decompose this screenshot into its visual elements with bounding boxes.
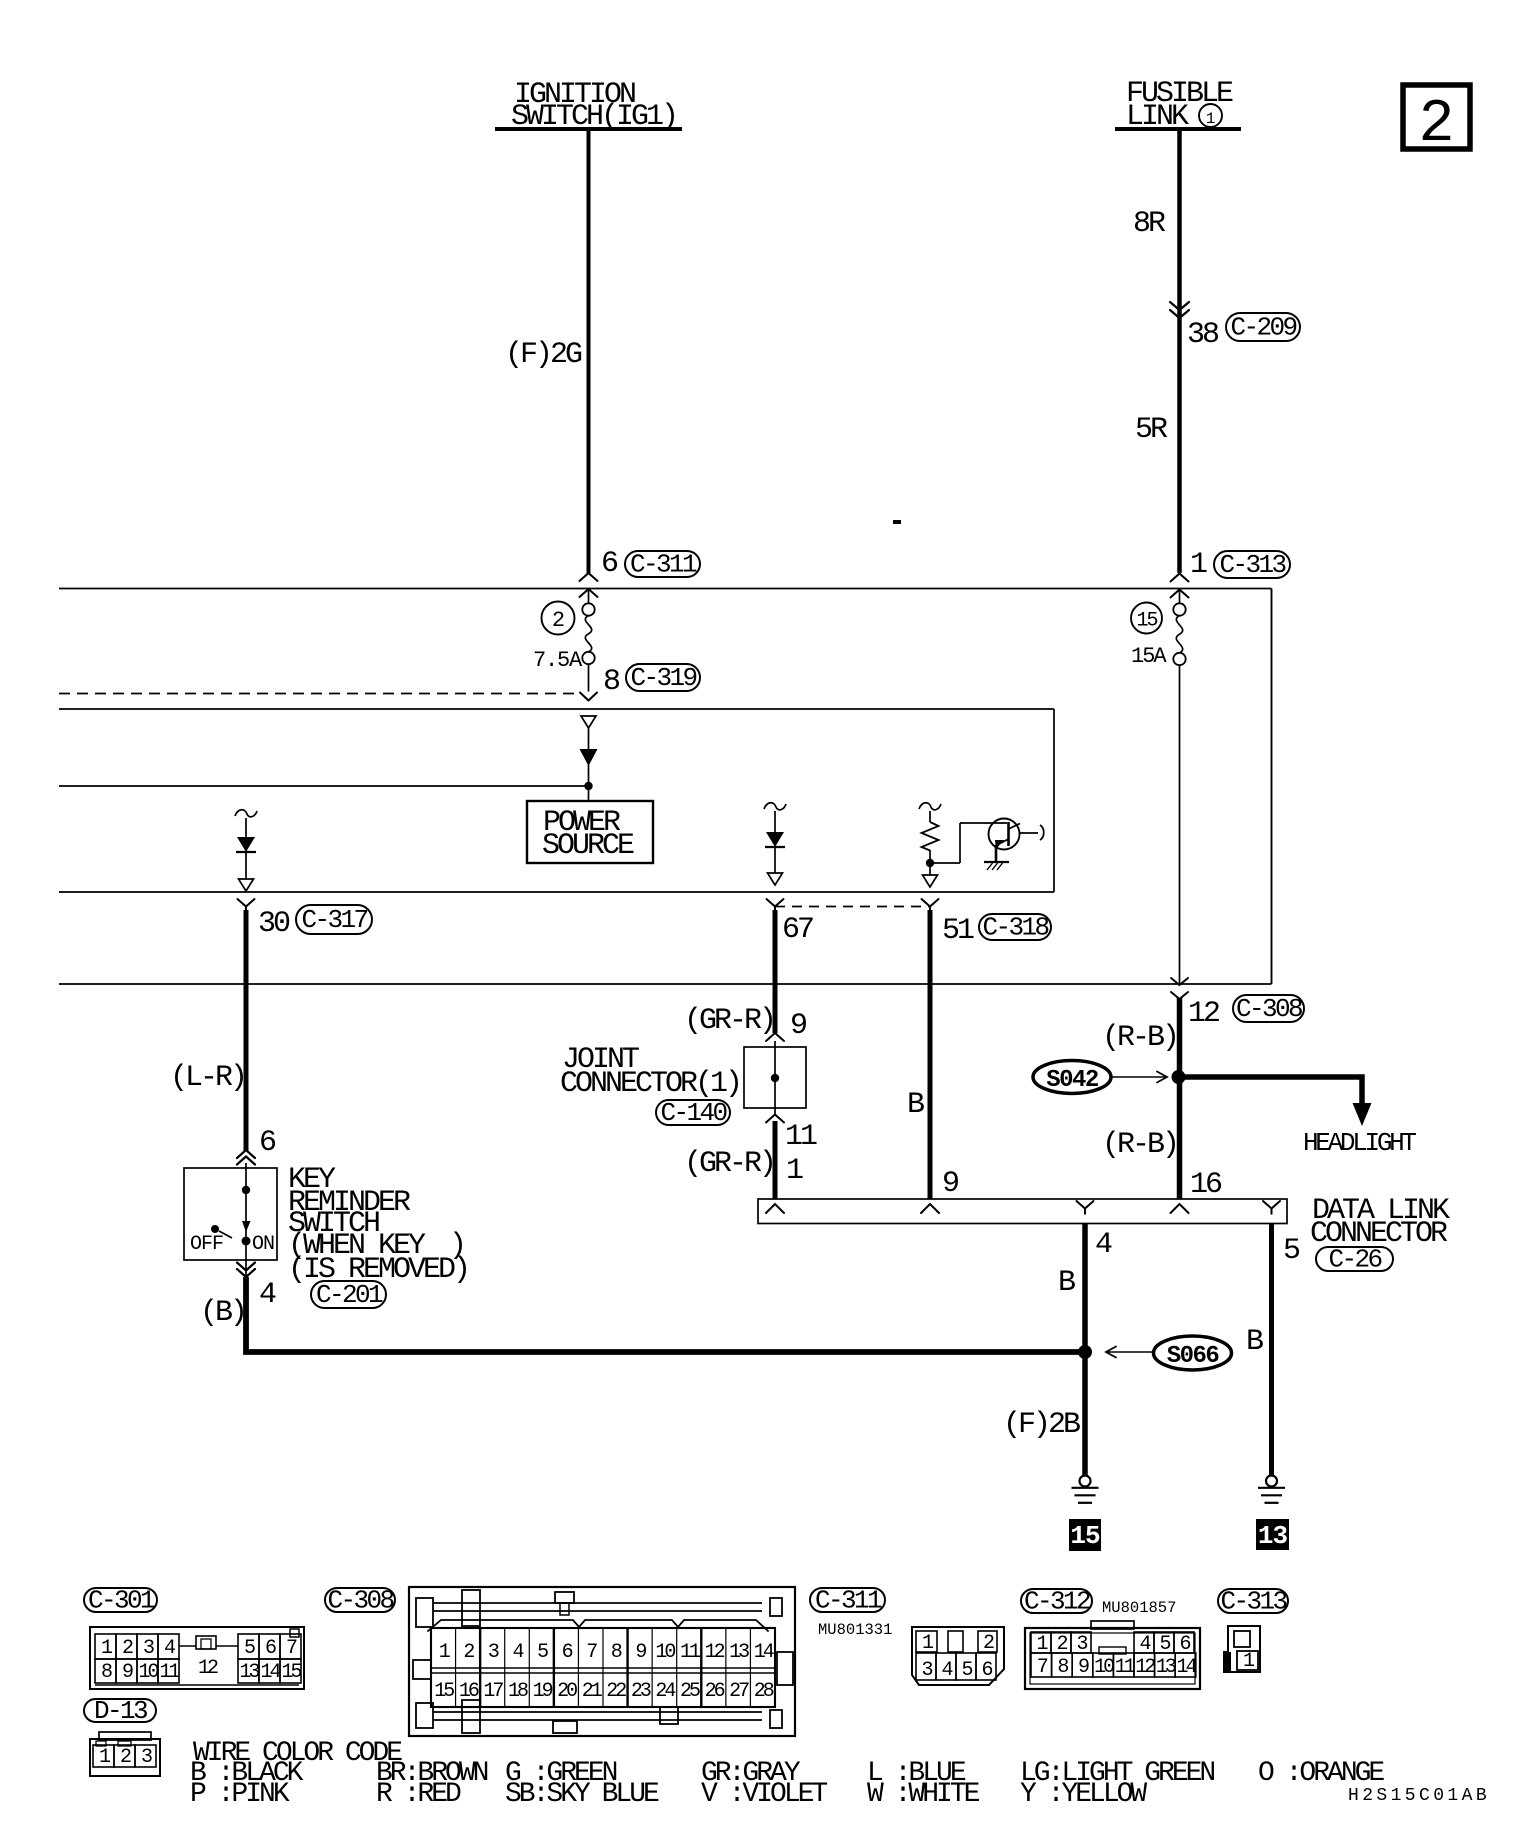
svg-text:SOURCE: SOURCE bbox=[542, 829, 634, 863]
svg-text:C-318: C-318 bbox=[982, 913, 1048, 943]
svg-text:(GR-R): (GR-R) bbox=[684, 1147, 774, 1181]
svg-text:S042: S042 bbox=[1046, 1067, 1098, 1094]
svg-text:2: 2 bbox=[552, 608, 564, 633]
svg-text:(F)2B: (F)2B bbox=[1003, 1408, 1080, 1442]
svg-text:25: 25 bbox=[680, 1680, 700, 1703]
svg-text:D-13: D-13 bbox=[94, 1696, 147, 1726]
svg-text:15: 15 bbox=[434, 1680, 454, 1703]
svg-text:19: 19 bbox=[533, 1680, 553, 1703]
svg-text:8: 8 bbox=[603, 665, 620, 699]
svg-text:HEADLIGHT: HEADLIGHT bbox=[1303, 1128, 1416, 1158]
svg-text:13: 13 bbox=[1156, 1656, 1176, 1679]
svg-text:OFF: OFF bbox=[190, 1233, 223, 1256]
svg-text:10: 10 bbox=[655, 1641, 675, 1664]
svg-text:15: 15 bbox=[1070, 1521, 1100, 1551]
svg-text:SB:SKY BLUE: SB:SKY BLUE bbox=[505, 1779, 659, 1810]
svg-text:C-311: C-311 bbox=[815, 1586, 882, 1616]
svg-text:17: 17 bbox=[483, 1680, 503, 1703]
svg-text:6: 6 bbox=[601, 547, 618, 581]
svg-text:B: B bbox=[907, 1088, 924, 1122]
svg-text:Y :YELLOW: Y :YELLOW bbox=[1020, 1779, 1147, 1810]
svg-text:C-319: C-319 bbox=[630, 663, 696, 693]
svg-text:C-317: C-317 bbox=[301, 905, 367, 935]
svg-text:C-312: C-312 bbox=[1024, 1587, 1090, 1617]
svg-text:22: 22 bbox=[606, 1680, 626, 1703]
svg-text:W :WHITE: W :WHITE bbox=[867, 1779, 980, 1810]
svg-text:14: 14 bbox=[754, 1641, 774, 1664]
svg-text:15: 15 bbox=[1136, 610, 1157, 633]
svg-text:67: 67 bbox=[782, 913, 813, 947]
svg-text:27: 27 bbox=[729, 1680, 749, 1703]
svg-text:P :PINK: P :PINK bbox=[190, 1779, 290, 1810]
svg-text:(GR-R): (GR-R) bbox=[684, 1004, 774, 1038]
svg-text:5R: 5R bbox=[1135, 413, 1168, 447]
svg-text:1: 1 bbox=[786, 1154, 803, 1188]
svg-text:11: 11 bbox=[1115, 1656, 1136, 1679]
svg-text:24: 24 bbox=[655, 1680, 675, 1703]
svg-text:11: 11 bbox=[159, 1661, 180, 1684]
svg-text:13: 13 bbox=[729, 1641, 749, 1664]
svg-text:10: 10 bbox=[138, 1661, 158, 1684]
svg-text:1: 1 bbox=[1206, 110, 1216, 128]
svg-text:21: 21 bbox=[582, 1680, 603, 1703]
svg-text:4: 4 bbox=[259, 1278, 276, 1312]
svg-text:C-311: C-311 bbox=[630, 550, 697, 580]
svg-text:C-308: C-308 bbox=[327, 1586, 393, 1616]
svg-text:23: 23 bbox=[631, 1680, 651, 1703]
svg-text:O :ORANGE: O :ORANGE bbox=[1258, 1758, 1384, 1789]
svg-text:C-140: C-140 bbox=[660, 1098, 726, 1128]
svg-text:13: 13 bbox=[239, 1661, 259, 1684]
svg-text:(F)2G: (F)2G bbox=[505, 338, 582, 372]
svg-text:28: 28 bbox=[754, 1680, 774, 1703]
svg-text:15: 15 bbox=[281, 1661, 301, 1684]
svg-text:C-313: C-313 bbox=[1220, 1587, 1286, 1617]
svg-text:51: 51 bbox=[942, 914, 974, 948]
svg-text:(R-B): (R-B) bbox=[1102, 1021, 1177, 1055]
svg-text:11: 11 bbox=[680, 1641, 701, 1664]
svg-text:12: 12 bbox=[1135, 1656, 1155, 1679]
svg-text:4: 4 bbox=[1095, 1228, 1112, 1262]
svg-text:(R-B): (R-B) bbox=[1102, 1128, 1177, 1162]
svg-text:C-201: C-201 bbox=[316, 1280, 383, 1310]
svg-text:C-301: C-301 bbox=[88, 1586, 155, 1616]
svg-text:CONNECTOR(1): CONNECTOR(1) bbox=[560, 1067, 740, 1101]
svg-text:V :VIOLET: V :VIOLET bbox=[701, 1779, 827, 1810]
svg-text:13: 13 bbox=[1258, 1521, 1288, 1551]
svg-text:16: 16 bbox=[1190, 1168, 1222, 1202]
svg-text:15A: 15A bbox=[1131, 644, 1167, 669]
svg-text:14: 14 bbox=[260, 1661, 280, 1684]
svg-text:H2S15C01AB: H2S15C01AB bbox=[1348, 1786, 1490, 1806]
svg-text:S066: S066 bbox=[1167, 1343, 1220, 1370]
svg-text:26: 26 bbox=[705, 1680, 725, 1703]
svg-text:11: 11 bbox=[785, 1120, 817, 1154]
svg-text:14: 14 bbox=[1176, 1656, 1196, 1679]
svg-text:B: B bbox=[1246, 1325, 1263, 1359]
svg-text:9: 9 bbox=[790, 1009, 806, 1043]
svg-text:18: 18 bbox=[508, 1680, 528, 1703]
svg-text:12: 12 bbox=[705, 1641, 725, 1664]
svg-text:B: B bbox=[1058, 1266, 1075, 1300]
svg-text:9: 9 bbox=[942, 1167, 958, 1201]
svg-text:C-313: C-313 bbox=[1219, 550, 1285, 580]
svg-text:5: 5 bbox=[1283, 1234, 1300, 1268]
svg-text:20: 20 bbox=[557, 1680, 577, 1703]
svg-text:C-209: C-209 bbox=[1230, 313, 1296, 343]
svg-text:7.5A: 7.5A bbox=[533, 648, 583, 673]
svg-text:ON: ON bbox=[252, 1233, 274, 1256]
svg-text:38: 38 bbox=[1187, 318, 1219, 352]
svg-text:12: 12 bbox=[1188, 997, 1219, 1031]
svg-text:2: 2 bbox=[1418, 91, 1454, 159]
svg-text:10: 10 bbox=[1094, 1656, 1114, 1679]
svg-text:12: 12 bbox=[198, 1657, 218, 1680]
svg-text:(L-R): (L-R) bbox=[170, 1061, 245, 1095]
svg-text:C-308: C-308 bbox=[1236, 994, 1302, 1024]
svg-text:1: 1 bbox=[1190, 548, 1207, 582]
svg-text:(B): (B) bbox=[200, 1296, 245, 1330]
svg-text:16: 16 bbox=[459, 1680, 479, 1703]
svg-text:6: 6 bbox=[259, 1126, 276, 1160]
svg-text:R :RED: R :RED bbox=[376, 1779, 461, 1810]
svg-text:30: 30 bbox=[258, 907, 290, 941]
svg-text:MU801857: MU801857 bbox=[1102, 1599, 1176, 1617]
svg-text:8R: 8R bbox=[1133, 207, 1166, 241]
svg-text:C-26: C-26 bbox=[1328, 1245, 1381, 1275]
svg-text:MU801331: MU801331 bbox=[818, 1621, 892, 1639]
